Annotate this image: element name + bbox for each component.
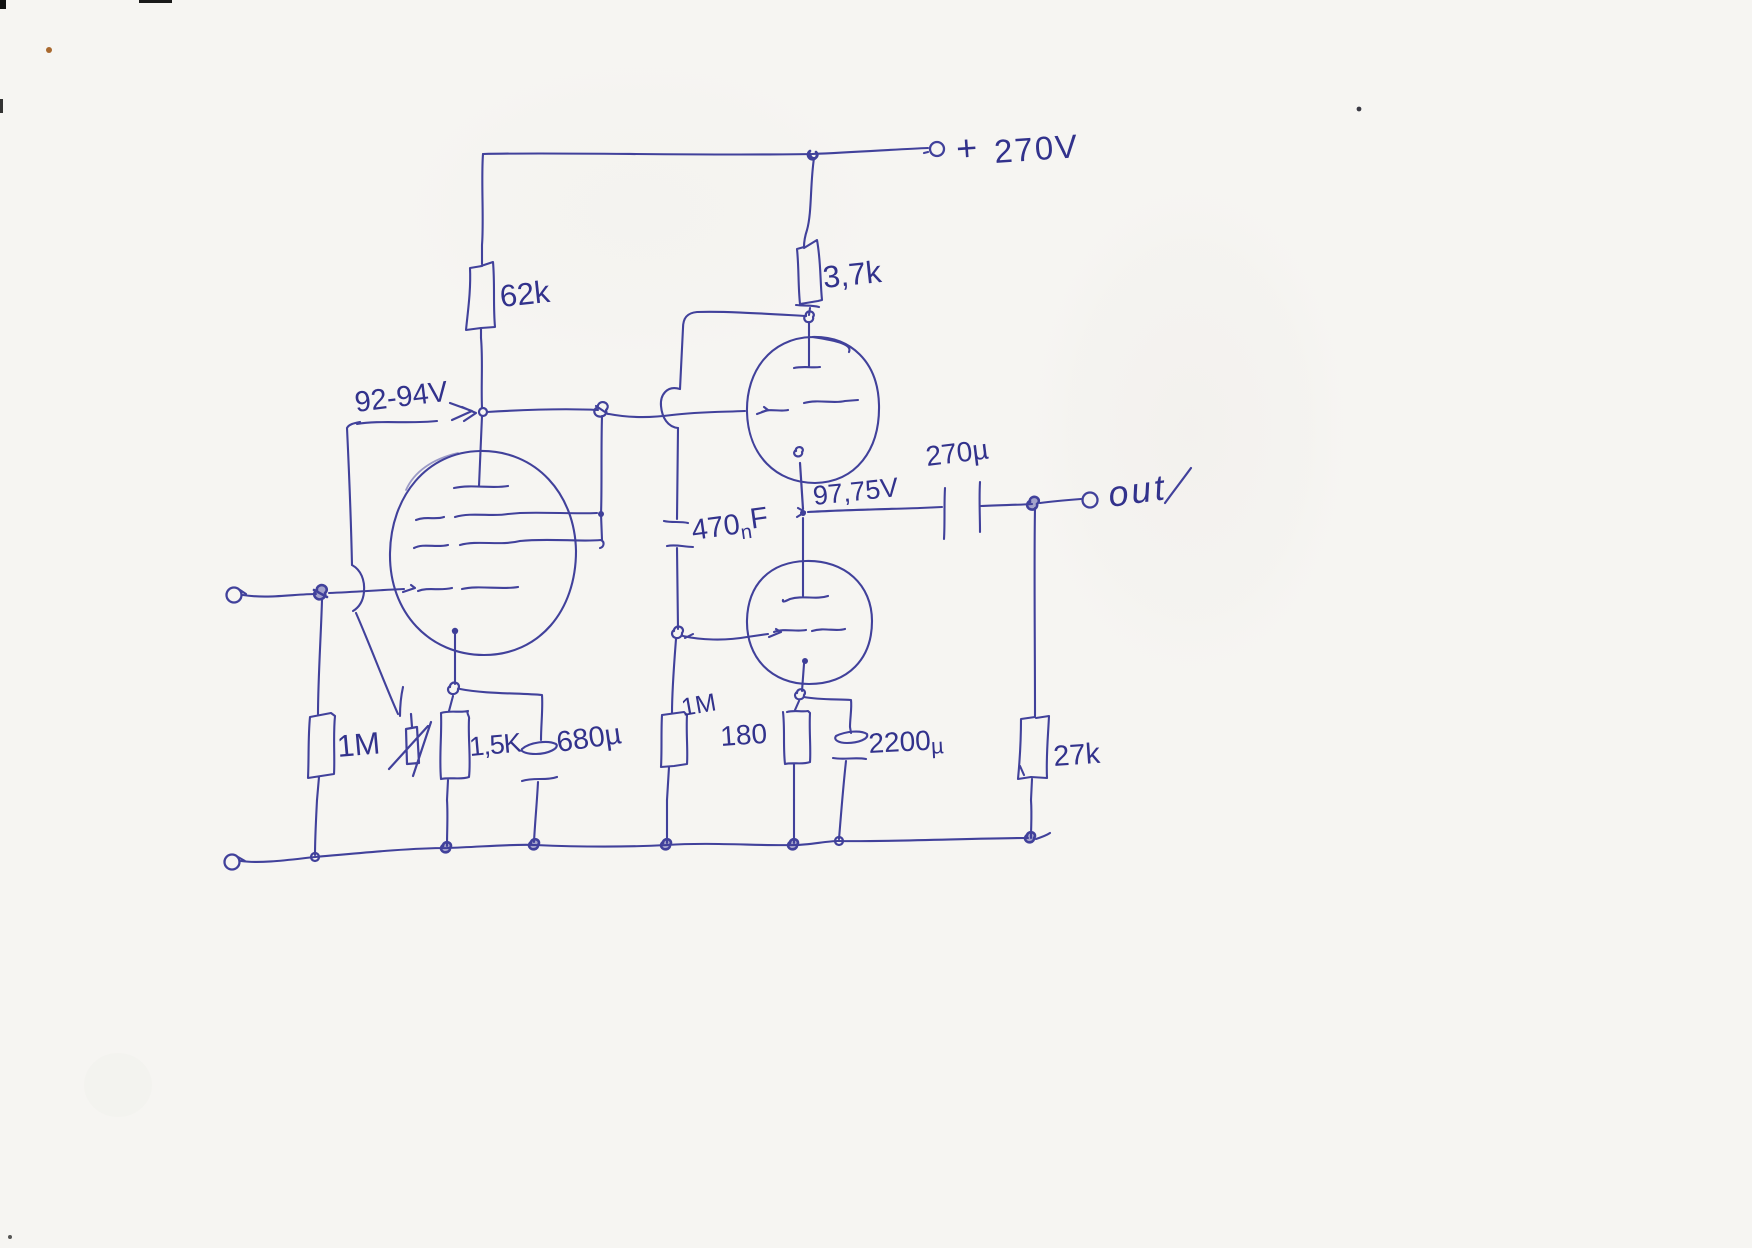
- V1 cathode: [452, 628, 458, 634]
- rail junction node R1M2: [661, 839, 671, 849]
- input terminal: [227, 588, 242, 603]
- V3 cathode: [802, 658, 808, 664]
- V1 g3 wire right to vertical with hook: [520, 540, 604, 548]
- node E cathode junction V3: [795, 689, 805, 699]
- wire node E to C3 2200u: [804, 697, 851, 727]
- rail junction node R1,5k: [441, 842, 451, 852]
- wire C4 to node F: [981, 504, 1032, 506]
- svg-text:1M: 1M: [679, 688, 718, 722]
- capacitor C4 270n coupling: [944, 482, 980, 539]
- capacitor C2 680u bottom plate: [522, 777, 557, 842]
- terminal +270V supply: [930, 142, 944, 156]
- node anode V2 / R3.7k scribble: [804, 311, 814, 322]
- capacitor C3 2200u bottom plate: [833, 758, 866, 839]
- node B scribble junction: [594, 402, 608, 417]
- wire input to node G: [243, 594, 316, 597]
- wire node B toward V2 grid with hop over 470n line: [609, 411, 745, 417]
- wire vertical from node B down to g2/g3: [601, 416, 602, 540]
- wire node D to C4 270n: [808, 507, 942, 512]
- capacitor C3 2200u top plate: [835, 727, 867, 743]
- V3 grid dashes: [774, 630, 806, 632]
- wire node F to out terminal: [1040, 499, 1081, 503]
- wire top supply rail: [483, 148, 928, 155]
- svg-text:+: +: [955, 127, 979, 169]
- rail junction node R27k: [1025, 832, 1035, 842]
- label 92-94V with pointer: [450, 403, 476, 421]
- resistor R2 3,7k: [796, 240, 822, 315]
- wire R1 to node A: [481, 338, 482, 408]
- V1 grid1 dashes: [418, 588, 452, 591]
- svg-text:270V: 270V: [993, 127, 1080, 170]
- node A (92-94V node): [479, 408, 487, 416]
- V1 grid2 dashes: [416, 517, 444, 520]
- wire from rail corner down to R 62k: [482, 154, 483, 264]
- wire rail to R2: [804, 158, 814, 247]
- potentiometer P1 (crossed out): [389, 714, 431, 776]
- svg-text:1,5K: 1,5K: [468, 728, 523, 762]
- out label t-cross: [1165, 468, 1191, 503]
- wire node H to C2 680u: [460, 689, 542, 740]
- svg-text:27k: 27k: [1052, 738, 1101, 773]
- wire V2 cathode down to node D: [794, 447, 803, 509]
- resistor R1 62k: [466, 262, 495, 338]
- resistor R7 27k load: [1018, 716, 1049, 800]
- svg-text:62k: 62k: [498, 274, 552, 314]
- resistor R3 1M grid leak: [308, 713, 335, 800]
- node D (out node): [800, 510, 806, 516]
- terminal ground left: [225, 855, 240, 870]
- rail junction node C2200u: [835, 837, 843, 845]
- capacitor C2 680u top plate: [522, 742, 557, 754]
- svg-text:3,7k: 3,7k: [821, 254, 883, 295]
- triode V3 (lower) envelope: [747, 561, 872, 684]
- wire R3 to ground rail: [315, 800, 317, 855]
- node G scribble junction: [314, 585, 327, 599]
- rail junction node C680u: [529, 839, 539, 849]
- wire R7 to ground rail: [1030, 800, 1033, 838]
- capacitor C1 470nF: [664, 428, 693, 629]
- V1 grid3 dashes: [414, 545, 448, 548]
- resistor R4 1,5k cathode: [440, 711, 469, 800]
- hop over input wire: [352, 565, 364, 611]
- svg-text:out: out: [1105, 466, 1169, 515]
- node F junction scribble: [1027, 497, 1039, 510]
- V1 anode plate: [454, 416, 508, 488]
- pentode V1 envelope: [390, 451, 576, 655]
- terminal out: [1083, 493, 1098, 508]
- V1 g2 wire right to vertical: [520, 512, 597, 515]
- rail junction node R180: [788, 839, 798, 849]
- node H cathode junction V1: [448, 683, 459, 695]
- node C junction scribble: [672, 627, 683, 639]
- rail end hook: [1036, 833, 1050, 839]
- grid arrow into tube V2: [757, 407, 768, 414]
- triode V2 (cathode follower) envelope: [747, 337, 879, 483]
- wire R4 to ground rail: [446, 800, 449, 846]
- svg-text:1M: 1M: [336, 725, 382, 764]
- wire node C to V3 grid with arrow: [683, 634, 768, 640]
- V2 grid dashes: [762, 410, 788, 412]
- resistor R6 180: [783, 711, 810, 800]
- lead node H to R1,5k: [449, 696, 453, 711]
- rail junction node R1M: [311, 853, 319, 861]
- lead node E to R180: [795, 701, 799, 710]
- scanner edge artifacts: [0, 0, 6, 9]
- node junction on top rail: [808, 151, 817, 159]
- resistor R5 1M grid leak: [661, 712, 687, 800]
- wire node C down to R5: [672, 639, 676, 713]
- wire pointer down to crossed pot: [356, 613, 398, 714]
- wire node G into V1 grid with arrow: [329, 589, 404, 593]
- wire node G down to R3: [318, 600, 322, 714]
- V3 anode plate: [783, 518, 828, 602]
- wire node F down to R27k: [1034, 508, 1037, 716]
- wire R6 to ground rail: [793, 800, 795, 843]
- svg-text:180: 180: [719, 718, 768, 752]
- wire bottom rail: [241, 838, 1028, 862]
- V2 anode plate: [794, 322, 820, 368]
- wire V2 anode node to C1 470nF: [680, 312, 806, 389]
- wire node A to node B: [487, 409, 598, 412]
